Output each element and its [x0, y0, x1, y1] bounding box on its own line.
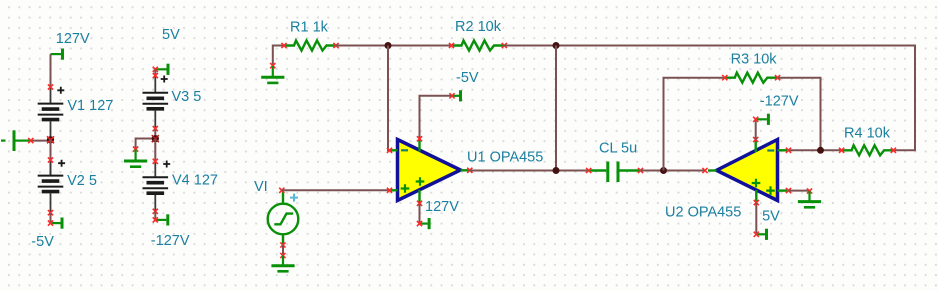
svg-text:R1 1k: R1 1k: [290, 20, 329, 36]
pin x U1 non-inverting: [387, 188, 392, 193]
ground (under VI): [271, 256, 294, 272]
node 127V terminal (U1): [420, 218, 430, 229]
wire (U1 V+ supply down): [420, 204, 421, 224]
op-amp U1: [390, 140, 469, 204]
svg-text:-5V: -5V: [456, 70, 479, 86]
pin x CL left: [586, 168, 591, 173]
ground (under R1 left): [261, 66, 284, 83]
pin x U1 output: [467, 168, 472, 173]
resistor R4: [842, 145, 894, 155]
resistor R1: [285, 41, 337, 51]
source VI: [268, 192, 299, 245]
svg-text:127V: 127V: [56, 31, 90, 47]
svg-text:CL 5u: CL 5u: [599, 141, 637, 157]
op-amp U2: [708, 140, 787, 204]
battery V2: [38, 140, 65, 213]
wire (to ground of stack 2): [136, 139, 156, 150]
pin x VI top: [279, 188, 284, 193]
pin x U1 V- top: [417, 136, 422, 141]
wire (U1 output to CL): [470, 170, 589, 172]
pin x R1 right: [333, 43, 338, 48]
pin x 5V terminal: [153, 67, 158, 72]
pin x R3 right: [775, 75, 780, 80]
svg-text:V4 127: V4 127: [172, 173, 218, 189]
pin x R4 left: [839, 148, 844, 153]
pin x V2 top: [48, 157, 53, 162]
wire: [154, 139, 156, 162]
wire (down to U1 output net): [555, 46, 557, 171]
node 127V terminal (top of V1): [51, 49, 63, 60]
pin x -127V terminal: [153, 217, 158, 222]
pin x U2 inverting: [786, 148, 791, 153]
wire (R1 left lead down to ground): [273, 46, 284, 67]
wire (U2 V- supply up): [755, 119, 757, 140]
node -5V terminal (bottom of V2): [51, 218, 63, 229]
battery V1: [38, 87, 65, 140]
pin x V1 top: [48, 84, 53, 89]
wire (U1 V- supply): [420, 96, 453, 139]
battery V4: [143, 161, 171, 212]
junction F (U2 output / R3 tap): [660, 167, 667, 174]
wire (VI to U1 + input): [282, 189, 390, 191]
wire: [50, 54, 52, 87]
wire: [30, 140, 51, 142]
pin x V4 bottom: [153, 209, 158, 214]
wire (down to U1 inverting input): [388, 46, 390, 151]
resistor R3: [725, 73, 777, 83]
pin x V2 bottom: [48, 210, 53, 215]
wire (up to R3 left): [664, 78, 725, 171]
wire (U2 inverting to junction to R4): [789, 149, 842, 151]
pin x R4 right: [891, 148, 896, 153]
wire: [50, 213, 52, 223]
svg-text:U2 OPA455: U2 OPA455: [665, 204, 741, 220]
svg-text:5V: 5V: [762, 209, 780, 225]
wire: [336, 45, 452, 47]
pin x R3 left: [722, 75, 727, 80]
junction C (R1/R2, inverting input net): [385, 42, 392, 49]
pin x R2 left: [449, 43, 454, 48]
svg-text:R4 10k: R4 10k: [844, 126, 891, 142]
svg-text:V2 5: V2 5: [67, 173, 97, 189]
wire: [154, 211, 156, 220]
node -127V terminal (bottom of V4): [155, 214, 168, 225]
capacitor CL: [589, 162, 640, 183]
svg-text:-127V: -127V: [151, 233, 190, 249]
wire: [154, 69, 156, 76]
ground (stack 2): [124, 149, 147, 166]
pin x 127V terminal U1: [417, 221, 422, 226]
pin x ground U2: [807, 188, 812, 193]
pin x U1 V+ bottom: [417, 201, 422, 206]
svg-text:127V: 127V: [425, 199, 459, 215]
pin x 5V terminal U2: [754, 232, 759, 237]
wire (U2 V+ supply down): [755, 203, 757, 234]
pin x jack: [28, 138, 33, 143]
svg-text:VI: VI: [254, 179, 268, 195]
junction B (battery stack 2 midpoint): [152, 135, 159, 142]
pin x V3 bottom: [153, 126, 158, 131]
pin x ground stack2: [133, 147, 138, 152]
pin x V3 top: [153, 73, 158, 78]
pin x ground R1: [270, 63, 275, 68]
node -127V terminal (U2): [756, 114, 769, 125]
pin x -5V terminal U1: [449, 93, 454, 98]
pin x U2 V+ bottom: [754, 200, 759, 205]
wire: [282, 245, 284, 256]
svg-text:-127V: -127V: [760, 94, 799, 110]
svg-text:V3 5: V3 5: [172, 89, 202, 105]
pin x -5V terminal: [48, 221, 53, 226]
svg-text:U1 OPA455: U1 OPA455: [467, 150, 543, 166]
pin x CL right: [638, 168, 643, 173]
wire (top net to right side): [504, 46, 915, 151]
pin x U2 non-inverting: [786, 188, 791, 193]
wire (U2 + input to ground): [789, 190, 810, 192]
pin x R1 left: [281, 43, 286, 48]
pin x V4 top: [153, 159, 158, 164]
junction E (output net / feedback tap): [553, 167, 560, 174]
wire: [154, 129, 156, 139]
svg-text:R2 10k: R2 10k: [455, 19, 502, 35]
svg-text:V1 127: V1 127: [67, 98, 113, 114]
plus mark VI: [290, 194, 298, 202]
junction A (battery stack 1 midpoint): [47, 136, 54, 143]
resistor R2: [452, 41, 504, 51]
svg-text:-5V: -5V: [31, 234, 54, 250]
node jack J (left): [1, 130, 30, 151]
junction D (R2 right / output net): [553, 42, 560, 49]
node 5V terminal (top of V3): [155, 64, 168, 75]
pin x R2 right: [502, 43, 507, 48]
svg-text:R3 10k: R3 10k: [731, 52, 778, 68]
svg-text:5V: 5V: [162, 27, 180, 43]
node 5V terminal (U2): [756, 229, 766, 240]
pin x U2 V- top: [753, 137, 758, 142]
battery V3: [143, 76, 169, 129]
pin x VI bottom: [280, 242, 285, 247]
wire (CL to U2 output): [641, 170, 706, 172]
node -5V terminal (U1): [452, 90, 461, 101]
pin x -127V terminal U2: [753, 117, 758, 122]
wire (R3 right down to inverting net): [778, 78, 821, 151]
pin x ground VI: [280, 253, 285, 258]
junction G (U2 inverting / R3 / R4): [817, 147, 824, 154]
pin x U2 output: [702, 168, 707, 173]
pin x U1 inverting: [387, 148, 392, 153]
ground (right of U2): [798, 191, 821, 207]
